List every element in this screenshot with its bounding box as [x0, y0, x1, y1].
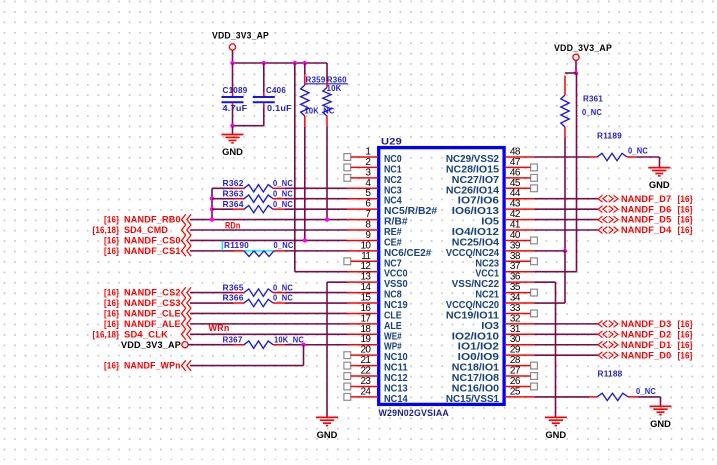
svg-text:NC16/IO0: NC16/IO0: [452, 383, 500, 394]
pin stub 9: [347, 239, 378, 241]
svg-text:VCCQ/NC20: VCCQ/NC20: [446, 300, 500, 311]
off-page connector NANDF_D0: [598, 352, 618, 359]
wire pin 31 to NANDF_D2: [535, 333, 598, 335]
ground GND (bottom center): [316, 417, 338, 441]
svg-text:NC14: NC14: [384, 394, 408, 405]
pin stub 46: [505, 177, 531, 179]
svg-text:R363: R363: [223, 188, 244, 198]
no-connect box pin 46: [531, 174, 538, 181]
svg-text:0_NC: 0_NC: [274, 241, 294, 250]
no-connect box pin 20: [344, 352, 351, 359]
pin stub 40: [505, 239, 531, 241]
svg-text:35: 35: [510, 282, 521, 293]
svg-text:25: 25: [510, 386, 521, 397]
svg-text:10K_NC: 10K_NC: [274, 335, 304, 344]
svg-text:IO4/IO12: IO4/IO12: [452, 227, 500, 238]
wire VDD stem (top-left): [232, 50, 234, 63]
svg-text:4.7uF: 4.7uF: [223, 104, 248, 113]
svg-text:[16]: [16]: [678, 204, 693, 214]
off-page connector NANDF_D2: [598, 331, 618, 338]
no-connect box pin 1: [344, 154, 351, 161]
svg-text:39: 39: [510, 240, 521, 251]
pin stub 48: [505, 156, 535, 158]
svg-text:[16]: [16]: [104, 288, 119, 298]
svg-text:NANDF_D5: NANDF_D5: [621, 215, 671, 225]
capacitor C406: [253, 63, 275, 108]
wire R367 to pin 19: [285, 344, 347, 346]
svg-text:43: 43: [510, 199, 521, 210]
wire pin 42 to NANDF_D5: [535, 219, 598, 221]
svg-text:[16]: [16]: [104, 246, 119, 256]
svg-text:NC18/IO1: NC18/IO1: [452, 363, 500, 374]
svg-text:36: 36: [510, 272, 521, 283]
no-connect box pin 38: [531, 258, 538, 265]
pin stub 42: [505, 219, 535, 221]
pin stub 8: [347, 229, 378, 231]
svg-text:ALE: ALE: [384, 321, 402, 332]
svg-text:[16]: [16]: [678, 329, 693, 339]
svg-text:28: 28: [510, 355, 521, 366]
svg-text:0_NC: 0_NC: [273, 283, 293, 292]
svg-text:32: 32: [510, 313, 521, 324]
off-page connector NANDF_D5: [598, 216, 618, 223]
wire R363 left lead in: [212, 198, 233, 200]
resistor R362: [233, 185, 285, 192]
svg-text:34: 34: [510, 293, 521, 304]
off-page connector NANDF_D4: [598, 227, 618, 234]
junction VDD / R361 / VCC1: [574, 71, 578, 75]
svg-text:RE#: RE#: [384, 227, 402, 238]
svg-text:NC8: NC8: [384, 290, 402, 301]
svg-text:17: 17: [360, 313, 371, 324]
wire R1190 to pin 10: [285, 250, 347, 252]
svg-text:NC7: NC7: [384, 258, 402, 269]
wire NANDF_WPn up to WP# net: [303, 345, 305, 366]
pin stub 2: [351, 166, 378, 168]
svg-text:11: 11: [361, 251, 371, 262]
svg-text:47: 47: [510, 157, 521, 168]
svg-text:VCC0: VCC0: [384, 269, 408, 280]
wire R362-R364 common vertical: [211, 188, 213, 219]
svg-text:R365: R365: [223, 282, 244, 292]
pin stub 47: [505, 166, 531, 168]
svg-text:W29N02GVSIAA: W29N02GVSIAA: [379, 408, 450, 419]
svg-text:R361: R361: [583, 95, 603, 104]
svg-text:C406: C406: [266, 86, 286, 95]
off-page connector NANDF_D1: [598, 341, 618, 348]
resistor R360: [323, 81, 331, 127]
svg-text:U29: U29: [381, 137, 402, 148]
svg-text:NANDF_WPn: NANDF_WPn: [124, 361, 181, 371]
svg-text:41: 41: [510, 220, 521, 231]
svg-text:[16,18]: [16,18]: [93, 329, 120, 339]
svg-text:0_NC: 0_NC: [273, 200, 293, 209]
pin stub 16: [347, 312, 378, 314]
wire VSS0 down to GND: [326, 282, 328, 417]
svg-text:42: 42: [510, 209, 521, 220]
svg-text:GND: GND: [650, 419, 671, 430]
no-connect box pin 23: [344, 383, 351, 390]
off-page connector SD4_CMD: [182, 225, 192, 236]
wire pin 36 VSS right: [535, 281, 556, 283]
svg-text:[16]: [16]: [678, 319, 693, 329]
svg-text:NC12: NC12: [384, 373, 408, 384]
wire VDD to VCC0 vertical: [294, 63, 296, 272]
svg-text:NC11: NC11: [384, 363, 408, 374]
wire SD4_CLK to pin 18: [190, 333, 347, 335]
svg-text:0_NC: 0_NC: [582, 108, 602, 117]
svg-text:R1190: R1190: [224, 241, 249, 250]
svg-text:10: 10: [360, 240, 371, 251]
svg-text:IO5: IO5: [481, 217, 499, 228]
svg-text:SD4_CLK: SD4_CLK: [124, 329, 168, 339]
pin stub 35: [505, 292, 531, 294]
off-page connector NANDF_D3: [598, 320, 618, 327]
resistor R366: [233, 299, 285, 306]
off-page connector NANDF_CS1: [182, 246, 192, 257]
svg-text:GND: GND: [317, 430, 338, 441]
wire R359 bottom to NANDF_CS0 net: [304, 127, 306, 241]
wire pin 48 to R1189: [535, 156, 590, 158]
svg-text:NANDF_CS1: NANDF_CS1: [124, 246, 181, 256]
svg-text:NC26/IO14: NC26/IO14: [446, 185, 500, 196]
pin stub 3: [351, 177, 378, 179]
pin stub 13: [347, 281, 378, 283]
off-page connector NANDF_CS0: [182, 235, 192, 246]
wire to pin 34: [535, 302, 566, 304]
svg-text:[16]: [16]: [104, 298, 119, 308]
svg-text:[16]: [16]: [104, 319, 119, 329]
wire pin 32 to NANDF_D3: [535, 323, 598, 325]
svg-text:44: 44: [510, 188, 521, 199]
wire to pin 37 VCC1: [535, 271, 577, 273]
svg-text:[16]: [16]: [678, 340, 693, 350]
wire NANDF_WPn horizontal: [190, 365, 304, 367]
svg-text:38: 38: [510, 251, 521, 262]
pin stub 36: [505, 281, 535, 283]
pin stub 19: [347, 344, 378, 346]
wire R362 left lead in: [212, 187, 233, 189]
svg-text:IO3: IO3: [481, 321, 499, 332]
svg-text:GND: GND: [222, 147, 243, 158]
svg-text:[16,18]: [16,18]: [93, 225, 120, 235]
no-connect box pin 2: [344, 164, 351, 171]
pin stub 17: [347, 323, 378, 325]
svg-text:14: 14: [360, 282, 371, 293]
pin stub 25: [505, 396, 535, 398]
svg-text:33: 33: [510, 303, 521, 314]
svg-text:NANDF_D7: NANDF_D7: [621, 194, 671, 204]
svg-text:WRn: WRn: [209, 323, 230, 333]
resistor R364: [233, 206, 285, 213]
pin stub 18: [347, 333, 378, 335]
svg-text:13: 13: [360, 272, 371, 283]
svg-text:WP#: WP#: [384, 342, 402, 353]
pin stub 11: [351, 260, 378, 262]
svg-text:23: 23: [360, 376, 371, 387]
off-page connector NANDF_CS2: [182, 287, 192, 298]
pin stub 20: [351, 354, 378, 356]
svg-text:45: 45: [510, 178, 521, 189]
wire R365 to pin 14: [285, 292, 347, 294]
off-page connector NANDF_D7: [598, 195, 618, 202]
pin stub 41: [505, 229, 535, 231]
svg-text:NANDF_D2: NANDF_D2: [621, 329, 671, 339]
svg-text:24: 24: [360, 386, 371, 397]
svg-text:C1089: C1089: [223, 86, 248, 95]
svg-text:16: 16: [360, 303, 371, 314]
pin stub 14: [347, 292, 378, 294]
no-connect box pin 45: [531, 185, 538, 192]
svg-text:[16]: [16]: [678, 225, 693, 235]
no-connect box pin 22: [344, 373, 351, 380]
svg-text:46: 46: [510, 167, 521, 178]
power symbol VDD_3V3_AP (top-left): [229, 44, 235, 50]
svg-text:IO1/IO2: IO1/IO2: [458, 342, 500, 353]
wire VCCQ vertical to pin 34: [564, 251, 566, 303]
svg-text:NC25/IO4: NC25/IO4: [452, 237, 500, 248]
svg-text:NC1: NC1: [384, 164, 402, 175]
svg-text:NC19: NC19: [384, 300, 408, 311]
pin stub 12: [347, 271, 378, 273]
svg-text:IO7/IO6: IO7/IO6: [458, 196, 500, 207]
ground GND (bottom right-center): [545, 417, 567, 441]
svg-text:48: 48: [510, 147, 521, 158]
svg-text:NC17/IO8: NC17/IO8: [452, 373, 500, 384]
svg-text:0.1uF: 0.1uF: [267, 104, 292, 113]
svg-text:NANDF_CLE: NANDF_CLE: [124, 309, 181, 319]
wire NANDF_CS0 to pin 9: [190, 239, 347, 241]
resistor R1189: [589, 153, 637, 160]
wire R1188 to GND corner: [638, 396, 661, 398]
svg-text:NANDF_D3: NANDF_D3: [621, 319, 671, 329]
svg-text:NC3: NC3: [384, 185, 402, 196]
svg-text:30: 30: [510, 334, 521, 345]
svg-text:37: 37: [510, 261, 521, 272]
underline under R359 R360 refs: [305, 83, 348, 85]
pin stub 44: [505, 198, 535, 200]
pin stub 33: [505, 312, 531, 314]
off-page connector NANDF_CS3: [182, 298, 192, 309]
wire NANDF_CS1 to R1190: [190, 250, 233, 252]
svg-text:[16]: [16]: [678, 350, 693, 360]
svg-text:0_NC: 0_NC: [636, 387, 656, 396]
junction resistor bank / NANDF_RB0: [210, 217, 214, 221]
off-page connector NANDF_WPn: [182, 360, 192, 371]
wire NANDF_RB0 to pin 7: [190, 219, 347, 221]
svg-text:0_NC: 0_NC: [273, 179, 293, 188]
svg-text:NC0: NC0: [384, 154, 402, 165]
no-connect box pin 35: [531, 289, 538, 296]
svg-text:R362: R362: [223, 178, 244, 188]
pin stub 45: [505, 187, 531, 189]
no-connect box pin 47: [531, 164, 538, 171]
IC U29 body: [379, 148, 504, 405]
wire VDD bus (top-left): [233, 62, 328, 64]
ground GND (top-left): [222, 135, 244, 159]
svg-text:NC23: NC23: [475, 258, 499, 269]
svg-text:21: 21: [360, 355, 371, 366]
pin stub 31: [505, 333, 535, 335]
svg-text:R/B#: R/B#: [384, 217, 408, 228]
svg-text:31: 31: [510, 324, 521, 335]
svg-text:NC13: NC13: [384, 383, 408, 394]
svg-text:NC4: NC4: [384, 196, 402, 207]
junction VDD bus / C406: [262, 61, 266, 65]
no-connect box pin 11: [344, 258, 351, 265]
svg-text:NC15/VSS1: NC15/VSS1: [446, 394, 500, 405]
pin stub 7: [347, 219, 378, 221]
wire VDD vertical to VCC1: [576, 73, 578, 272]
wire R363 to pin 5: [285, 198, 347, 200]
svg-text:R359: R359: [306, 75, 326, 84]
wire down to GND (bottom-right): [660, 397, 662, 406]
wire VSS0 pin 13 left: [327, 281, 347, 283]
svg-text:GND: GND: [545, 430, 566, 441]
resistor R365: [233, 289, 285, 296]
svg-text:VSS0: VSS0: [384, 279, 408, 290]
junction VDD bus / R359: [303, 61, 307, 65]
svg-text:NC21: NC21: [475, 290, 499, 301]
svg-text:R360: R360: [327, 75, 347, 84]
off-page connector SD4_CLK: [182, 329, 192, 340]
pin stub 5: [347, 198, 378, 200]
no-connect box pin 3: [344, 174, 351, 181]
wire C406 bottom down: [263, 108, 265, 126]
resistor R363: [233, 195, 285, 202]
no-connect box pin 24: [344, 393, 351, 400]
pin stub 32: [505, 323, 535, 325]
wire VDD to R367: [188, 344, 233, 346]
wire R1189 to GND corner: [637, 156, 660, 158]
svg-text:NC27/IO7: NC27/IO7: [452, 175, 500, 186]
pin stub 23: [351, 385, 378, 387]
svg-text:R367: R367: [223, 335, 243, 344]
pin stub 29: [505, 354, 535, 356]
pin stub 39: [505, 250, 535, 252]
svg-text:0_NC: 0_NC: [628, 146, 648, 155]
pin stub 38: [505, 260, 531, 262]
svg-text:26: 26: [510, 376, 521, 387]
pin stub 22: [351, 375, 378, 377]
resistor R361: [561, 76, 569, 138]
svg-text:SD4_CMD: SD4_CMD: [124, 225, 168, 235]
wire R366 to pin 15: [285, 302, 347, 304]
no-connect box pin 26: [531, 383, 538, 390]
wire NANDF_CS2 to R365: [190, 292, 233, 294]
svg-text:0_NC: 0_NC: [273, 189, 293, 198]
resistor R359: [301, 74, 309, 127]
junction R367 / NANDF_WPn: [301, 343, 305, 347]
wire VSS down to GND: [555, 282, 557, 417]
svg-text:R364: R364: [223, 199, 244, 209]
svg-text:[16]: [16]: [104, 236, 119, 246]
junction R360 / NANDF_RB0: [325, 217, 329, 221]
svg-text:NC10: NC10: [384, 352, 408, 363]
svg-text:VDD_3V3_AP: VDD_3V3_AP: [212, 31, 269, 41]
svg-text:VSS/NC22: VSS/NC22: [452, 279, 500, 290]
pin stub 21: [351, 365, 378, 367]
svg-text:NC2: NC2: [384, 175, 402, 186]
svg-text:NANDF_CS0: NANDF_CS0: [124, 236, 181, 246]
capacitor C1089: [222, 63, 244, 126]
svg-text:20: 20: [360, 345, 371, 356]
wire VDD to R361 top: [565, 72, 576, 74]
pin stub 10: [347, 250, 378, 252]
resistor R1190 (highlighted): [222, 241, 285, 256]
power symbol VDD_3V3_AP (top-right): [573, 54, 579, 60]
wire NANDF_CLE to pin 16: [190, 312, 347, 314]
junction R364 left: [210, 207, 214, 211]
wire pin 41 to NANDF_D4: [535, 229, 598, 231]
wire R364 to pin 6: [285, 208, 347, 210]
svg-text:[16]: [16]: [104, 215, 119, 225]
pin stub 1: [351, 156, 378, 158]
off-page connector NANDF_ALE: [182, 319, 192, 330]
svg-text:[16]: [16]: [104, 361, 119, 371]
wire VDD to VCC0 horizontal (pin 12): [295, 271, 347, 273]
power symbol VDD_3V3_AP (left): [182, 342, 188, 348]
ground GND (top-right): [648, 168, 670, 192]
svg-text:RDn: RDn: [225, 220, 241, 230]
svg-text:R1188: R1188: [598, 369, 623, 378]
svg-text:IO0/IO9: IO0/IO9: [458, 352, 500, 363]
svg-text:NANDF_D4: NANDF_D4: [621, 225, 671, 235]
svg-text:CLE: CLE: [384, 310, 402, 321]
wire R362 to pin 4: [285, 187, 347, 189]
pin stub 43: [505, 208, 535, 210]
no-connect box pin 21: [344, 362, 351, 369]
svg-text:VDD_3V3_AP: VDD_3V3_AP: [121, 340, 181, 350]
svg-text:40: 40: [510, 230, 521, 241]
svg-text:NANDF_D0: NANDF_D0: [621, 350, 671, 360]
junction VDD bus / VCC0 wire: [293, 61, 297, 65]
svg-text:NANDF_D1: NANDF_D1: [621, 340, 671, 350]
wire R360 bottom to NANDF_RB0 net: [326, 127, 328, 220]
wire VDD stem (top-right): [575, 60, 577, 73]
svg-text:NANDF_ALE: NANDF_ALE: [124, 319, 181, 329]
resistor R367: [233, 341, 285, 348]
svg-text:18: 18: [360, 324, 371, 335]
svg-text:R366: R366: [223, 293, 244, 303]
pin stub 6: [347, 208, 378, 210]
wire down to GND (top-right): [659, 157, 661, 168]
svg-text:VCC1: VCC1: [475, 269, 499, 280]
off-page connector NANDF_RB0: [182, 214, 192, 225]
wire SD4_CMD to pin 8: [190, 229, 347, 231]
pin stub 37: [505, 271, 535, 273]
no-connect box pin 33: [531, 310, 538, 317]
wire R364 left lead in: [212, 208, 233, 210]
wire NANDF_CS3 to R366: [190, 302, 233, 304]
svg-text:CE#: CE#: [384, 237, 402, 248]
svg-text:NC5/R/B2#: NC5/R/B2#: [384, 206, 438, 217]
svg-text:VCCQ/NC24: VCCQ/NC24: [446, 248, 500, 259]
wire C406 bottom to C1089 bottom: [233, 125, 264, 127]
svg-text:[16]: [16]: [678, 194, 693, 204]
junction VDD bus / C1089: [230, 61, 234, 65]
wire R361 bottom to VCCQ net: [564, 138, 566, 251]
wire pin 25 to R1188: [535, 396, 590, 398]
wire pin 44 to NANDF_D7: [535, 198, 598, 200]
wire to GND (top-left): [232, 126, 234, 135]
wire VDD bus corner down to R360: [326, 63, 328, 81]
no-connect box pin 40: [531, 237, 538, 244]
svg-text:15: 15: [360, 293, 371, 304]
svg-text:NANDF_CS3: NANDF_CS3: [124, 298, 181, 308]
pin stub 34: [505, 302, 535, 304]
svg-text:NANDF_CS2: NANDF_CS2: [124, 288, 181, 298]
